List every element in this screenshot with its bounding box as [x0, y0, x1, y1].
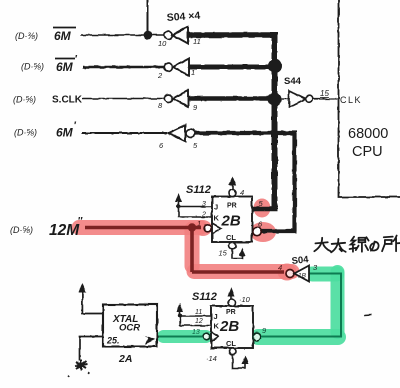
XTAL VCC wire + arrow [82, 288, 103, 314]
svg-text:11: 11 [195, 309, 202, 316]
svg-text:J: J [214, 312, 218, 321]
wire: thin from junction to S04 CLK inverter [279, 98, 289, 100]
svg-text:(D·⅝): (D·⅝) [14, 128, 37, 138]
wire: input line 4 (6M') [82, 132, 167, 134]
XTAL OCR box [103, 305, 157, 347]
svg-text:13: 13 [192, 329, 200, 336]
char 線 [350, 237, 369, 252]
svg-text:2A: 2A [118, 353, 132, 365]
inverter U1d triangle [168, 125, 185, 142]
svg-text:10: 10 [158, 39, 167, 48]
FF1 CLR bubble [229, 242, 236, 249]
svg-text:4: 4 [240, 188, 244, 197]
char 太 [331, 239, 346, 252]
red highlighter: 12M horizontal band [79, 228, 292, 272]
char の [370, 241, 378, 250]
svg-text:S44: S44 [284, 76, 302, 87]
wire XTAL out to FF2 clock [156, 336, 203, 338]
char 所 [382, 236, 400, 252]
svg-text:(D·⅝): (D·⅝) [13, 95, 36, 105]
inverter U2 output bubble [306, 96, 313, 103]
svg-text:S112: S112 [186, 184, 211, 196]
svg-text:3: 3 [202, 201, 206, 208]
svg-text:(D·⅜): (D·⅜) [15, 31, 38, 41]
FF1 clock triangle [212, 223, 221, 234]
inverter 1B drawn over red [286, 266, 309, 282]
svg-text:OCR: OCR [119, 323, 140, 334]
red blob on FF1 pin 5 [254, 199, 271, 218]
svg-text:S04: S04 [291, 254, 310, 267]
XTAL ground wire [80, 337, 104, 362]
inverter U2 (S04 to CPU clk) triangle [289, 91, 306, 107]
green highlighter: inverter 1B output band [164, 272, 339, 337]
FF2 Q output bubble [253, 333, 261, 341]
svg-text:PR: PR [226, 309, 236, 316]
wire: input line 1 (6M) [81, 34, 164, 36]
svg-text:S.CLK: S.CLK [52, 95, 83, 106]
svg-text:K: K [214, 322, 220, 331]
FF2 K input wire [180, 316, 211, 326]
svg-text:2: 2 [157, 71, 163, 80]
inverter U1d bubble [187, 129, 195, 137]
label Japanese note [314, 236, 400, 253]
FF1 J/K tie bracket [179, 207, 213, 218]
svg-text:(D·⅝): (D·⅝) [10, 225, 33, 235]
svg-text:(D·⅝): (D·⅝) [21, 62, 44, 72]
FF2 PR bubble [228, 299, 235, 306]
svg-text:2B: 2B [221, 213, 241, 230]
FF2 J input wire [180, 315, 211, 317]
FF1 PR bubble [229, 190, 236, 197]
svg-text:6M: 6M [56, 60, 74, 74]
wire: U2 output to CPU [313, 98, 339, 100]
FF2 PR pullup arrow [231, 292, 233, 299]
svg-text:CLK: CLK [340, 95, 362, 105]
svg-text:2B: 2B [219, 318, 239, 335]
svg-text:11: 11 [193, 37, 201, 46]
FF2 CLR tie wire [233, 355, 246, 368]
svg-text:4: 4 [278, 263, 282, 272]
thick wire: FF1 pin6 horizontal [261, 229, 297, 233]
svg-text:12: 12 [195, 318, 203, 325]
char 大 [314, 238, 330, 251]
svg-text:·14: ·14 [206, 354, 217, 363]
node: junction dot line2/vertical [268, 59, 282, 73]
FF1 J/K pullup arrow [178, 199, 180, 207]
thick wire: inv2 to vertical [189, 65, 272, 70]
svg-text:68000: 68000 [348, 126, 388, 142]
svg-text:15: 15 [320, 89, 329, 98]
red blob on FF1 pin 6 [250, 222, 276, 242]
1B input bubble [286, 270, 294, 278]
thick wire: inv3 to vertical [188, 96, 271, 101]
node: junction dot line3/vertical [268, 92, 282, 106]
svg-text:K: K [214, 214, 220, 223]
wire: top thin vertical from page edge [147, 0, 149, 35]
inverter U1a (S04) bubble [164, 31, 172, 39]
thick wire: branch vertical to FF1 pin6 [292, 133, 296, 231]
green highlighter: vertical band [331, 272, 345, 332]
svg-text:1: 1 [197, 219, 201, 228]
svg-text:·10: ·10 [239, 295, 251, 304]
svg-text:″: ″ [78, 216, 83, 227]
svg-text:S04 ×4: S04 ×4 [166, 10, 200, 24]
thick wire: inv1 to vertical [188, 32, 272, 38]
FF1 PR pullup arrow [232, 181, 234, 190]
stray dash right [364, 314, 372, 317]
svg-text:1B: 1B [298, 273, 307, 280]
svg-text:6M: 6M [54, 29, 72, 43]
svg-text:15: 15 [219, 249, 228, 258]
FF1 CLR tie wire [232, 249, 243, 259]
node: junction on line 1 [144, 31, 153, 40]
thick wire: corner top [270, 35, 275, 40]
svg-text:25.: 25. [106, 336, 120, 346]
FF2 J/K pullup arrow [178, 313, 182, 317]
wire 12M (dark under red): label to FF1 clock [85, 223, 284, 272]
svg-text:PR: PR [227, 203, 237, 210]
red blob at inverter 1B input bubble [278, 264, 297, 281]
wire: input line 3 (S.CLK) [82, 98, 164, 100]
svg-text:6M: 6M [56, 126, 74, 140]
FF2 (S112 2B) box [211, 306, 253, 348]
svg-text:1: 1 [191, 68, 195, 77]
wire (dark under green) inverter 1B in from vertical [156, 274, 341, 337]
ground symbol [68, 360, 90, 377]
wire to inverter 1B output bubble [192, 270, 284, 274]
thick wire: main vertical bus [272, 33, 278, 209]
svg-text:12M: 12M [49, 222, 80, 239]
junction dot on 12M line [188, 223, 196, 231]
FF1 clock bubble [204, 225, 211, 232]
inverter U1c triangle [173, 91, 188, 107]
green highlighter: FF2 Q output band [258, 329, 338, 345]
FF2 clock triangle [211, 332, 219, 342]
thick wire: FF1 pin5 to main vertical [251, 207, 277, 211]
svg-text:2: 2 [201, 212, 206, 219]
68000 CPU box outline [339, 0, 400, 197]
svg-text:CL: CL [226, 339, 236, 348]
FF1 CLR pullup arrowhead [239, 248, 246, 257]
red highlighter: horizontal band to inverter 1B [194, 264, 292, 279]
svg-text:CPU: CPU [352, 144, 383, 160]
FF2 clock bubble [204, 333, 211, 340]
inverter U1b bubble [164, 63, 172, 71]
green highlighter: XTAL to FF2 clock band [164, 330, 207, 343]
inverter U1c bubble [164, 95, 172, 103]
XTAL output marker [144, 335, 155, 345]
1B triangle [294, 266, 309, 282]
wire branch down from 12M [190, 228, 194, 273]
FF2 CLR bubble [229, 348, 236, 355]
FF2 CLR pullup arrowhead [242, 356, 249, 365]
svg-text:CL: CL [226, 233, 236, 242]
wire: input line 2 (6M') [83, 66, 164, 69]
red highlighter: vertical band down from 12M line [185, 229, 200, 266]
svg-text:J: J [214, 203, 218, 212]
red blob on FF1 clock input [194, 220, 212, 236]
inverter U1a triangle [173, 27, 188, 44]
thick wire: inv4 input from branch [195, 131, 297, 135]
FF1 (S112 2B) box [212, 197, 252, 243]
FF1 Q-bar output bubble [253, 227, 261, 235]
inverter U1b triangle [173, 59, 189, 76]
svg-text:S112: S112 [192, 291, 217, 303]
